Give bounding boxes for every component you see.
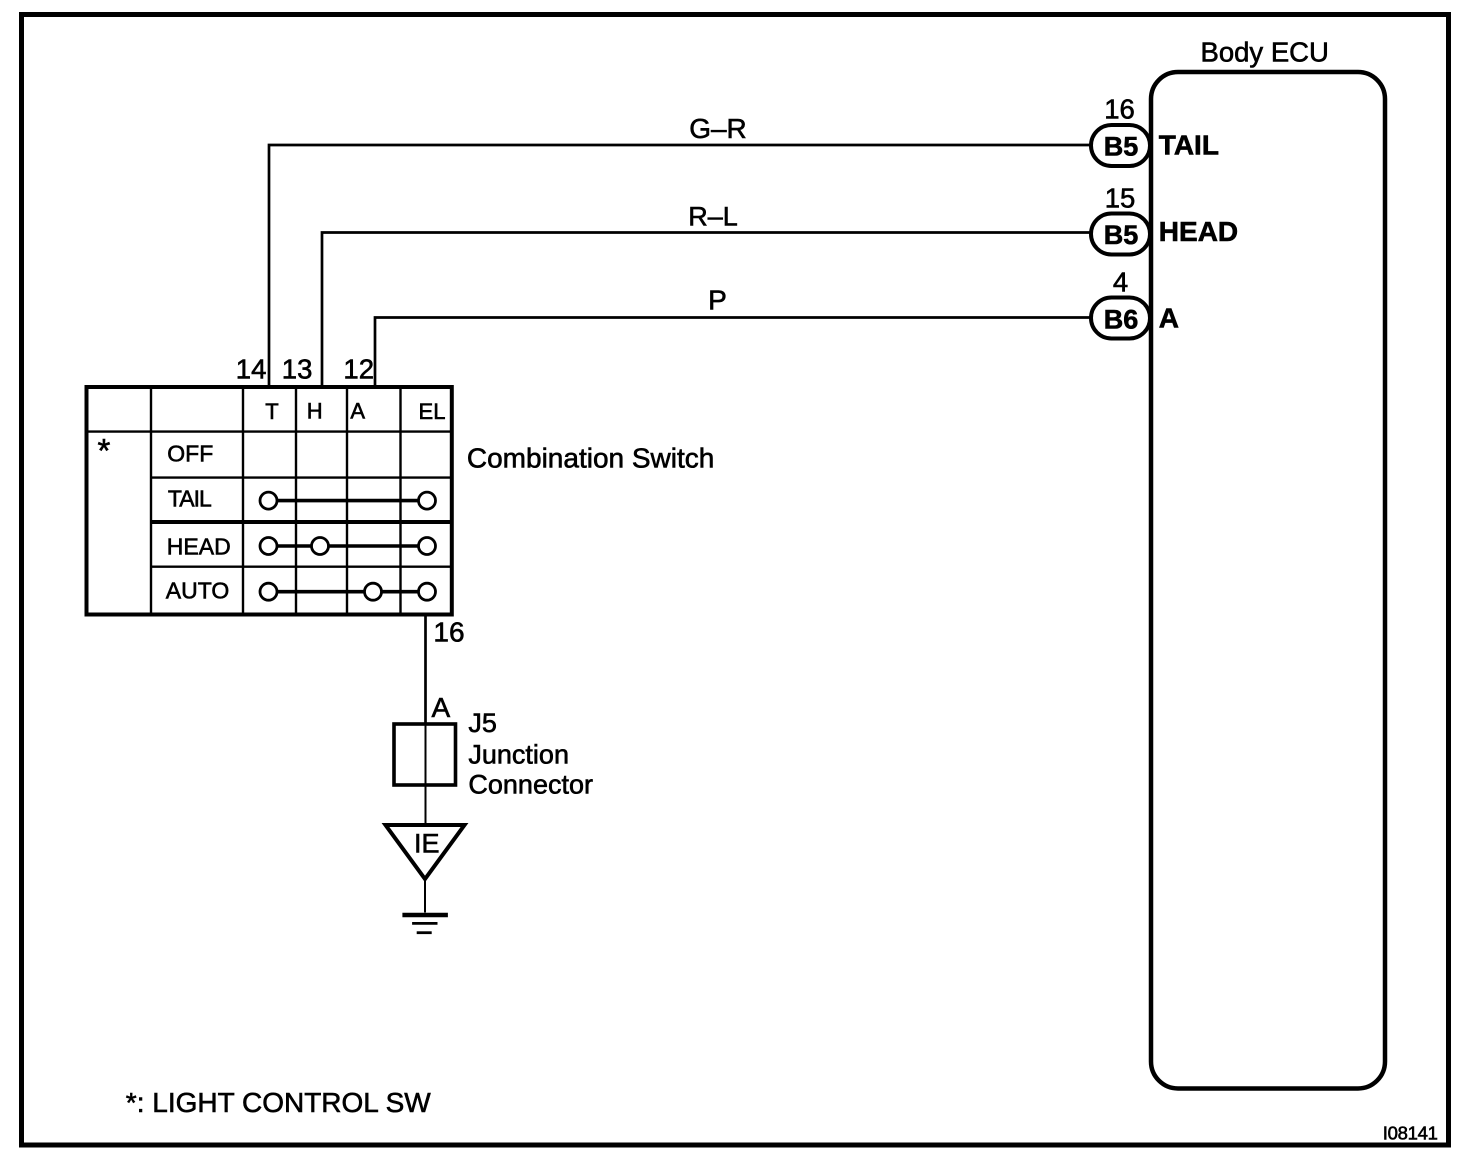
HEAD row contact circle T <box>260 538 277 555</box>
svg-text:J5: J5 <box>468 708 497 738</box>
svg-text:B6: B6 <box>1104 305 1139 335</box>
svg-text:A: A <box>350 399 365 424</box>
svg-text:*: * <box>98 432 111 469</box>
svg-text:HEAD: HEAD <box>1159 216 1238 247</box>
svg-text:TAIL: TAIL <box>168 486 212 512</box>
HEAD row contact line <box>269 544 428 548</box>
svg-text:OFF: OFF <box>167 441 213 467</box>
wire P (combination switch pin 12 to Body ECU B6/4) <box>375 318 1092 387</box>
combination switch table frame <box>87 387 452 615</box>
connector B5 (HEAD) <box>1091 214 1150 255</box>
svg-text:Connector: Connector <box>468 769 593 799</box>
svg-text:P: P <box>708 285 727 316</box>
svg-text:A: A <box>1159 303 1179 334</box>
svg-text:H: H <box>307 399 323 424</box>
svg-text:12: 12 <box>343 354 374 385</box>
HEAD row contact circle EL <box>419 538 436 555</box>
wire J5 to IE ground triangle <box>425 785 427 825</box>
svg-text:AUTO: AUTO <box>166 578 229 604</box>
svg-text:T: T <box>265 399 278 424</box>
svg-text:14: 14 <box>236 354 267 385</box>
svg-text:EL: EL <box>419 399 446 424</box>
svg-text:4: 4 <box>1113 266 1128 297</box>
connector B5 (TAIL) <box>1091 125 1150 166</box>
AUTO row contact circle A <box>365 583 382 600</box>
svg-text:HEAD: HEAD <box>167 533 231 559</box>
wire through J5 <box>425 724 427 785</box>
svg-text:16: 16 <box>433 617 464 648</box>
connector B6 (A) <box>1091 298 1150 339</box>
svg-text:R–L: R–L <box>688 202 738 232</box>
svg-text:Junction: Junction <box>468 739 569 769</box>
svg-text:B5: B5 <box>1104 220 1139 250</box>
AUTO row contact line <box>269 590 428 594</box>
wire G-R (combination switch pin 14 to Body ECU B5/16) <box>269 145 1092 386</box>
TAIL row contact line <box>269 499 428 503</box>
svg-text:G–R: G–R <box>689 113 747 144</box>
svg-text:16: 16 <box>1104 94 1135 125</box>
svg-text:Body ECU: Body ECU <box>1201 37 1329 68</box>
wire R-L (combination switch pin 13 to Body ECU B5/15) <box>322 233 1092 387</box>
Body ECU box <box>1151 72 1385 1089</box>
TAIL row contact circle T <box>260 492 277 509</box>
svg-text:*: LIGHT CONTROL SW: *: LIGHT CONTROL SW <box>126 1087 431 1118</box>
TAIL row contact circle EL <box>419 492 436 509</box>
HEAD row contact circle H <box>312 538 329 555</box>
svg-text:I08141: I08141 <box>1383 1123 1438 1144</box>
junction connector J5 box <box>394 724 456 785</box>
svg-text:IE: IE <box>414 828 440 858</box>
ground symbol <box>402 913 448 918</box>
svg-text:Combination Switch: Combination Switch <box>467 443 714 474</box>
svg-text:TAIL: TAIL <box>1159 130 1219 161</box>
svg-text:B5: B5 <box>1104 132 1139 162</box>
AUTO row contact circle EL <box>419 583 436 600</box>
svg-text:13: 13 <box>282 354 313 385</box>
ground triangle IE <box>386 825 465 879</box>
wire IE to ground <box>424 879 426 913</box>
svg-text:A: A <box>432 692 451 723</box>
svg-text:15: 15 <box>1105 183 1136 214</box>
wire EL pin 16 to junction connector J5 <box>424 615 427 725</box>
AUTO row contact circle T <box>260 583 277 600</box>
